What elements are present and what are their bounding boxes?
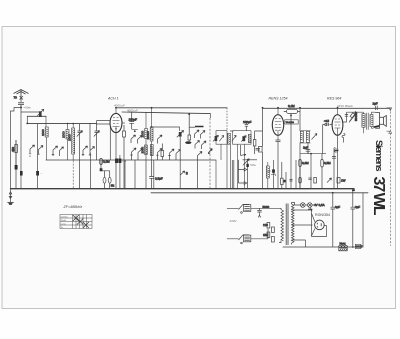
speaker LS — [375, 113, 386, 129]
node anode tube3 — [355, 111, 357, 113]
wire main HT top line right part — [263, 107, 390, 109]
variable capacitor C-osc — [177, 130, 184, 160]
svg-text:Sk: Sk — [111, 184, 115, 188]
bandswitch contact S3b — [89, 123, 95, 156]
electrolytic C-273 — [266, 160, 276, 189]
lamp return bar — [308, 207, 312, 209]
coil choke mid — [266, 162, 269, 189]
node mid — [134, 130, 136, 132]
wire dashed can riser — [226, 108, 228, 131]
power transformer primary — [279, 208, 284, 242]
svg-text:4V 0,5A: 4V 0,5A — [314, 203, 325, 207]
coupling coil with arrow — [37, 109, 44, 117]
coil L6 — [140, 145, 147, 155]
svg-text:Lang: Lang — [61, 223, 67, 225]
capacitor antenna series — [18, 103, 24, 108]
node coil top — [151, 126, 153, 128]
choke in supply — [339, 242, 348, 251]
wire drops middle — [125, 160, 198, 189]
voltage selector taps — [263, 223, 274, 243]
wire HT from rectifier — [292, 225, 313, 247]
switch contact S5a — [158, 135, 163, 144]
node tube3 top — [337, 107, 339, 109]
small coil mid right — [334, 148, 337, 153]
svg-text:70: 70 — [14, 96, 18, 100]
svg-text:0,3M: 0,3M — [302, 161, 309, 165]
node 262 top — [262, 107, 264, 109]
capacitor block C-101 — [100, 168, 103, 171]
switch contact S6e — [198, 152, 203, 161]
node tube1 anode — [115, 107, 117, 109]
bandswitch contact S1a — [29, 145, 35, 157]
svg-text:450: 450 — [11, 147, 15, 152]
svg-text:0,2M: 0,2M — [103, 160, 110, 164]
capacitor C-100pF IF — [243, 120, 252, 131]
resistor R-05M — [321, 154, 331, 189]
resistor R-03M — [299, 160, 309, 189]
coil L1 — [41, 116, 48, 160]
wire mains to transformer — [251, 208, 279, 239]
svg-text:≈15: ≈15 — [324, 119, 329, 123]
capacitor C-151 — [149, 177, 163, 189]
linkage chain line mid — [209, 118, 211, 189]
svg-text:Drehko: Drehko — [61, 215, 69, 218]
grid cap tube3 — [323, 119, 333, 154]
wire left input line B — [27, 122, 96, 124]
antenna — [14, 90, 29, 101]
svg-text:50w: 50w — [250, 163, 256, 167]
mains plug P1 — [227, 204, 251, 213]
wire antenna down — [20, 108, 22, 189]
switch contact S6d — [202, 141, 207, 149]
capacitor C-2uF output — [373, 102, 378, 111]
wire drops tube1 — [96, 121, 116, 189]
wire thick secondary to speaker — [374, 126, 380, 127]
capacitor block C-247 — [246, 160, 256, 189]
svg-text:2µF: 2µF — [373, 102, 378, 106]
svg-text:50000: 50000 — [354, 112, 358, 121]
resistor R-50000 diagonal — [349, 112, 358, 122]
box drawing number — [355, 244, 363, 248]
component row above bus right — [290, 178, 346, 184]
svg-text:2µF: 2µF — [303, 145, 308, 149]
table IF alignment — [60, 215, 92, 229]
wire chassis bus — [11, 188, 355, 190]
box small component — [259, 108, 263, 189]
svg-text:1000: 1000 — [62, 131, 66, 138]
svg-text:0,5µF: 0,5µF — [155, 177, 163, 181]
svg-text:0,1: 0,1 — [122, 159, 127, 163]
switch contact mid arrow — [243, 159, 258, 166]
capacitor C-2uF tube2 — [303, 145, 310, 153]
svg-text:230V: 230V — [230, 219, 237, 223]
tube V1 ACH1 — [110, 113, 122, 132]
node antenna junction — [20, 107, 22, 109]
capacitor C-5000 — [257, 205, 269, 217]
svg-text:3: 3 — [186, 172, 188, 176]
wire coil to osc cap — [152, 127, 180, 131]
capacitor C-344 — [345, 115, 348, 117]
node tube2 wires — [299, 107, 301, 109]
svg-text:ACH 1: ACH 1 — [107, 97, 119, 101]
wire right verticals to supply — [352, 190, 363, 248]
IF transformer T3 — [300, 131, 318, 144]
wire grid line tube3 — [300, 153, 326, 189]
svg-text:Welle: Welle — [61, 220, 67, 222]
capacitor C-100pF grid — [129, 112, 138, 129]
coil L4 — [141, 112, 148, 160]
wire left riser — [21, 112, 40, 123]
capacitor C-334 — [332, 149, 338, 159]
svg-text:1W: 1W — [341, 179, 346, 183]
capacitor block C-left1 — [15, 140, 18, 170]
svg-text:~: ~ — [41, 172, 43, 176]
svg-text:4µF: 4µF — [355, 205, 360, 209]
switch contact S6c — [195, 141, 200, 149]
resistor R-281 — [281, 162, 286, 189]
power transformer core — [286, 204, 288, 246]
dimension boundary right — [389, 108, 391, 246]
switch contact S6a — [195, 130, 200, 138]
svg-text:ATRI. Blank: ATRI. Blank — [337, 104, 353, 108]
wire tube3 anode up — [343, 112, 364, 122]
svg-text:100pF: 100pF — [129, 117, 138, 121]
coil L3 tapped winding — [67, 124, 74, 161]
wire rectifier loop — [292, 209, 327, 236]
node bus end — [353, 189, 355, 191]
resistor R-254 — [253, 131, 256, 154]
capacitor block C-left3 — [36, 124, 42, 189]
switch contact S5c — [168, 149, 174, 160]
power transformer secondary — [292, 203, 295, 245]
wire tube2 bottom — [276, 108, 309, 189]
wire drops right mid — [232, 160, 296, 189]
svg-text:4000 pF: 4000 pF — [127, 108, 138, 112]
svg-text:RES 964: RES 964 — [327, 97, 341, 101]
wire left input line A — [27, 115, 46, 117]
wire main HT top line — [116, 107, 227, 109]
wire mid lines — [230, 131, 263, 156]
switch contact S5b — [156, 149, 162, 161]
capacitor C-4uF second — [351, 189, 361, 247]
arrow node 3 — [180, 171, 188, 176]
node riser — [26, 123, 28, 125]
svg-text:1000: 1000 — [67, 134, 71, 141]
svg-text:0,1M: 0,1M — [288, 104, 295, 108]
capacitor block C-mid1 — [115, 159, 118, 164]
svg-text:RENS 1254: RENS 1254 — [269, 97, 288, 101]
coil L7 — [150, 145, 153, 156]
resistor R-tube1 — [123, 125, 126, 189]
switch bar — [195, 126, 204, 128]
capacitor C-4uF first — [331, 192, 341, 247]
capacitor block C-116 — [118, 155, 126, 189]
wire bottom supply line — [283, 246, 363, 248]
tube V3 RES964 — [332, 115, 343, 136]
svg-text:Netz: Netz — [340, 242, 347, 246]
svg-text:4000 pF: 4000 pF — [114, 104, 125, 108]
tube V2 RENS1254 — [272, 115, 283, 136]
IF transformer T2 — [232, 131, 251, 189]
jack terminals left — [101, 160, 115, 189]
IF transformer T1 — [213, 131, 230, 189]
wire tube1 side to line2 — [122, 112, 125, 123]
output transformer T-out — [362, 112, 375, 133]
label box tube2 — [285, 120, 298, 124]
linkage chain line — [72, 154, 74, 189]
svg-text:2000: 2000 — [140, 146, 144, 153]
table row labels — [61, 215, 69, 229]
switch contact S4c — [130, 148, 136, 160]
capacitor block C-left2 — [20, 171, 23, 176]
capacitor C-257 — [256, 149, 261, 151]
bandswitch contact S2b — [60, 147, 64, 156]
table X marks — [73, 215, 89, 228]
wire switch bus — [46, 159, 216, 161]
wire antenna to left border — [11, 108, 22, 189]
svg-text:37 WL: 37 WL — [370, 177, 387, 216]
resistor R-02M left — [100, 159, 110, 165]
wire second bus — [151, 192, 368, 194]
wire drops left section — [89, 153, 91, 189]
switch arrow on chain — [208, 149, 212, 154]
svg-text:Kz: Kz — [61, 227, 64, 229]
mains plug P2 — [227, 235, 251, 244]
svg-text:RGN/354: RGN/354 — [315, 213, 330, 217]
wire plate line corner down — [209, 114, 211, 118]
bandswitch contact S2a — [52, 146, 58, 156]
wire osc right — [179, 160, 181, 189]
bandswitch contact S1b — [37, 146, 43, 155]
resistor R-mid — [161, 144, 164, 161]
svg-text:1000: 1000 — [41, 129, 45, 136]
switch contact S4d — [138, 149, 143, 161]
rectifier tube V4 — [315, 220, 325, 230]
svg-text:110: 110 — [263, 223, 268, 227]
svg-text:4µF: 4µF — [335, 205, 340, 209]
node input top — [67, 123, 69, 125]
svg-text:20000: 20000 — [146, 131, 150, 140]
svg-text:2µF: 2µF — [266, 170, 271, 174]
svg-text:150: 150 — [263, 233, 268, 237]
resistor R-ant — [11, 140, 18, 189]
selector contacts right-pointing — [238, 160, 246, 185]
node L5 top — [151, 107, 153, 109]
resistor R-01M — [284, 104, 300, 117]
resistor R-186 — [188, 113, 195, 141]
dial lamps — [292, 203, 325, 208]
svg-text:0,5M: 0,5M — [324, 161, 331, 165]
svg-text:1000: 1000 — [141, 130, 145, 137]
coil L5 — [146, 108, 153, 160]
switch on antenna lead — [14, 96, 24, 103]
switch contact S4a — [131, 135, 136, 143]
svg-text:100pF: 100pF — [243, 120, 252, 124]
variable capacitor C-tune2 — [94, 124, 100, 160]
bandswitch contact S3a — [82, 146, 88, 156]
coil L2 — [62, 124, 69, 161]
svg-text:≈50w: ≈50w — [24, 106, 32, 110]
variable capacitor C-tune1 — [77, 124, 83, 189]
switch contact S4b — [138, 136, 143, 144]
svg-text:6937: 6937 — [356, 245, 363, 249]
switch contact S6b — [201, 131, 206, 139]
wire tube3 cathode down — [334, 134, 345, 189]
switch contact S5d — [176, 150, 181, 161]
node tube2 top — [277, 107, 279, 109]
capacitor block C-185 — [185, 141, 191, 144]
ground — [7, 189, 14, 205]
wire second top line — [122, 112, 210, 114]
svg-text:Siemens: Siemens — [373, 140, 384, 172]
svg-text:ZF=468kHz: ZF=468kHz — [63, 205, 83, 209]
